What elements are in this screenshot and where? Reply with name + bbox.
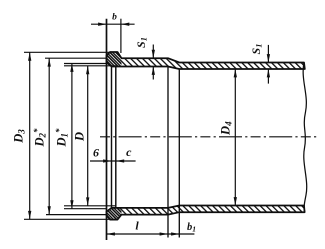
svg-text:b1: b1 [187, 222, 196, 234]
svg-text:S1: S1 [249, 44, 264, 55]
svg-text:D: D [73, 132, 87, 142]
svg-text:c: c [126, 145, 132, 159]
svg-text:D4: D4 [219, 121, 234, 136]
svg-text:D1*: D1* [54, 128, 70, 148]
svg-text:b: b [112, 12, 117, 22]
svg-text:S1: S1 [134, 37, 149, 48]
svg-text:D2*: D2* [32, 128, 48, 148]
svg-text:l: l [135, 219, 139, 233]
svg-text:6: 6 [93, 146, 99, 160]
svg-text:D3: D3 [12, 129, 27, 144]
